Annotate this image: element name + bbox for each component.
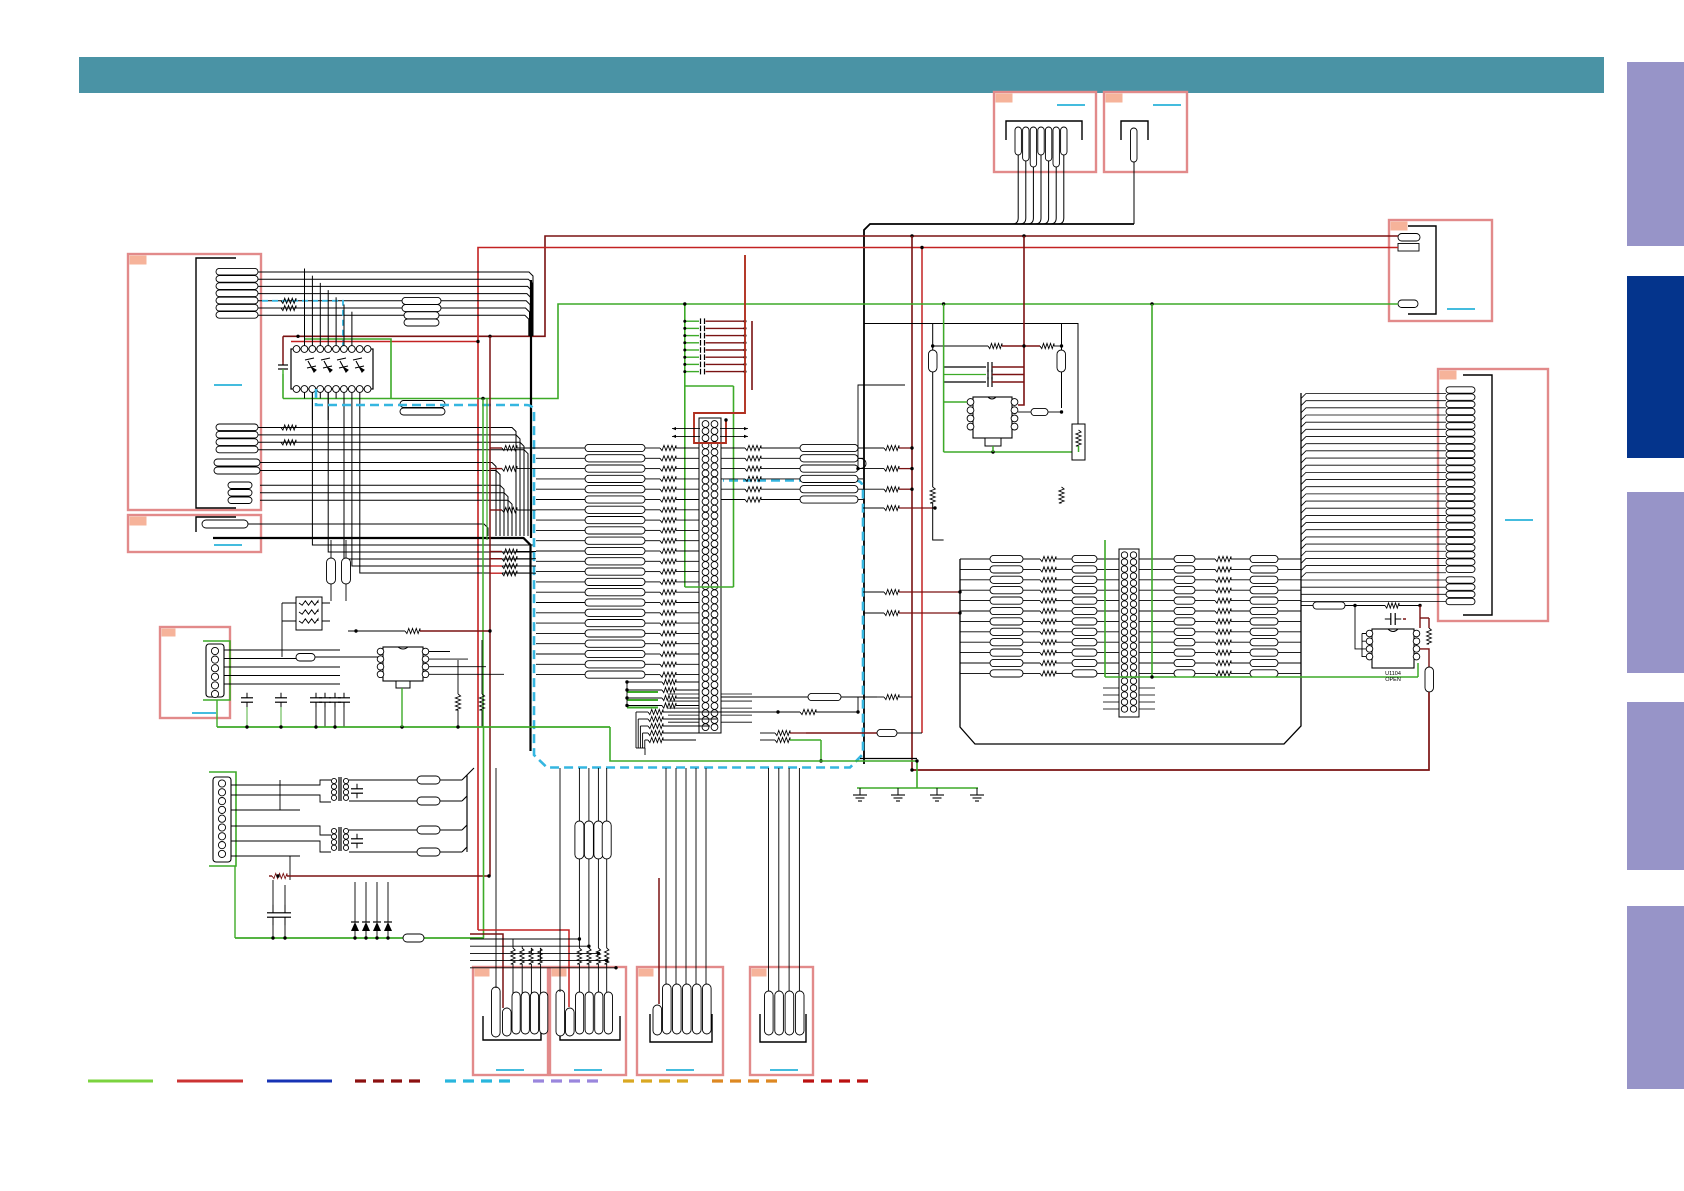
LSI inner connector pins [702,421,718,731]
vertical beads mic 2 [342,558,351,584]
osc wire left low [933,503,944,540]
osc right wire [1061,324,1063,409]
legend blue wire [267,1080,332,1083]
connector CN1001 pins group4 [228,482,252,504]
connector CN1101 pins [1015,127,1067,167]
wires PC1001 top fan [305,269,352,346]
green verticals around connector [683,302,733,587]
audio rows join bus [462,768,474,852]
connector box CN1102 frame [1104,92,1187,172]
legend dark-red dashed wire [355,1079,422,1082]
no-connect tick rows [672,427,748,438]
legend mustard dashed wire [623,1079,690,1082]
photocoupler PC1001 top pins [293,346,371,353]
transformer T2002 [331,827,348,851]
red bus top [478,248,1398,931]
connector box CN1003 frame (mic) [160,627,230,718]
vertical feed green rows [626,682,628,706]
green stub U1104 [1417,663,1419,677]
green stub mic ic [401,688,403,727]
wire CN1102 down [1133,162,1135,224]
ground symbol 3 [936,788,938,795]
green vertical left inner 2 [486,399,488,541]
connector CN2003 bracket [650,1014,712,1042]
bead on green bus [403,934,424,942]
osc left wire [932,324,934,488]
dark red audio row [269,873,491,878]
green horizontal to U1104 [1105,675,1418,678]
junction dark red 2 [1022,234,1025,237]
sidebar tab 4 [1627,702,1684,870]
exit row green 740 [760,737,823,762]
cyan dashed trace [262,301,343,346]
connector CN1103 pin 3 [1398,300,1418,308]
dark red bottom bus [912,692,1429,770]
connector CN2004 bracket [760,1014,806,1042]
osc top wire [864,324,1078,425]
resistor R1004 [281,440,296,445]
red wire to bus [291,340,480,343]
U-turn fold rows at right edge [858,458,866,468]
green outline CN1005 [209,772,236,866]
block rows [960,555,1301,677]
dot darkred bus [910,768,913,771]
left red stub rows 2 [490,563,536,575]
green box top edge [685,385,734,387]
wires CN1001 group2 [258,428,528,537]
osc zigzag right [1059,487,1064,503]
photocoupler PC1001 led arrows [305,358,364,372]
wire CN1002 [248,524,488,536]
connector CN1103 bracket [1408,226,1436,314]
ferrite bead mic [296,654,383,662]
legend dark red dashed wire 2 [803,1079,870,1082]
U1104 top capacitor [1385,618,1391,620]
U1104 stadium right [1425,667,1434,692]
connector CN1003 shell [206,644,224,697]
U1104 body [1372,629,1414,668]
audio caps bottom [267,880,291,938]
legend green wire [88,1080,153,1083]
block connector CN outline [1119,549,1139,717]
main LSI dashed route [316,389,863,768]
connector box CN1104 frame [1438,369,1548,621]
ferrite bead osc [1018,408,1063,415]
wires CN1003 out [224,650,340,684]
connector CN1001 pins group1 [216,268,258,318]
connector box CN1101 frame [994,92,1096,172]
dark red wire ladder second [751,321,753,390]
U1104 pins left [1366,630,1373,660]
fan to CN1104 [1301,394,1446,602]
mic caps row [241,693,350,727]
green bottom bus audio [235,936,484,939]
ferrite bead pair FB1003 [400,401,445,416]
mic IC bottom tab [396,681,410,688]
wires CN1101 to bus [1012,155,1064,224]
connector box CN2003 frame [637,967,723,1075]
LSI connector bottom ticks [668,694,752,722]
legend red wire [177,1080,243,1083]
ground symbol 2 [897,788,899,795]
wire osc left net [943,304,945,452]
left red stub rows [490,445,536,561]
wires CN1005 out [231,785,300,856]
sidebar tab 3 [1627,492,1684,673]
dark red bus top [283,236,1398,336]
ferrite bead pair FB1001 [402,297,441,311]
sidebar tab 1 [1627,62,1684,246]
connector CN1005 pins [218,780,225,858]
legend orange dashed wire [712,1079,779,1082]
osc left resistor RB1 [929,350,938,372]
osc IC notch [988,397,996,399]
connector box CN2004 frame [750,967,813,1075]
ground symbol 4 [976,788,978,795]
connector CN2004 pins [765,991,805,1035]
red vertical left inner [489,336,491,876]
audio vertical join [466,775,468,852]
wires T1001 [282,603,330,657]
connector box CN1103 frame [1389,220,1492,321]
wires mic IC right [429,652,504,675]
audio row wires upper [280,780,331,810]
legend purple dashed wire [533,1079,600,1082]
green wire PC1001 frame [305,339,391,399]
bundle H3 [666,768,706,984]
red vertical mid [921,248,923,734]
mic IC pins right [422,648,429,677]
exit row 712 [724,697,860,715]
connector CN1002 pin [196,517,248,532]
resistor R1001 [281,298,296,303]
connector CN1102 pin [1131,128,1138,162]
dark red wire to PC1001 [282,336,284,362]
mic resistor darkred row [348,628,492,633]
wires CN1001 group3/4 [260,463,512,537]
osc IC bottom tab [985,438,1001,446]
green wire to osc IC [944,401,967,403]
legend cyan dashed wire [445,1079,512,1082]
transformer T2001 [331,777,348,801]
green vertical left inner 1 [482,399,484,728]
green vertical block 2 [1151,304,1153,677]
wires CN1001 group1 to left bus [258,272,533,336]
svg-text:OPEN: OPEN [1385,677,1401,683]
staircase wires [470,937,618,994]
junction red [920,246,923,249]
U1104 right resistor [1420,618,1431,644]
photocoupler PC1001 body [291,349,373,389]
mic IC notch [398,647,408,649]
transformer T1001 block [296,597,322,630]
osc caps C1-C3 [944,362,1024,387]
capacitor C1001 [278,362,288,374]
black bus from CN1101 [864,224,1134,764]
U1104 right darkred [1403,606,1420,629]
exit row with bead [721,693,912,700]
osc row resistor wire [931,343,1063,348]
thick black bus horizontal [213,538,531,751]
block connector pins [1121,552,1136,712]
resistors above H1 [511,948,542,964]
green bus top [283,304,1398,399]
green stub connector audio [234,866,236,938]
connector CN1103 pin 1 [1398,234,1420,242]
exit row darkred 733 [760,729,922,736]
nested resistor cluster [636,709,724,755]
dot osc darkred [1022,344,1025,347]
header title bar [79,57,1604,93]
connector CN2002 bracket [560,1016,620,1040]
connector box CN2001 frame [473,967,548,1075]
dark red vertical mid [911,236,913,770]
green stub connector [216,700,218,727]
row to U1104 [1301,602,1422,609]
LSI inner connector outline [699,418,721,733]
osc right resistor RB2 [1057,350,1066,372]
connector CN1001 bracket [196,258,236,508]
vertical beads mic 1 [327,558,336,584]
dark red drop H1 [470,934,503,1008]
mic IC pins left [377,648,384,677]
wires PC1001 bottom drops [305,393,345,421]
signal block outline [960,393,1301,744]
resistors above H2 [577,948,609,964]
block connector side ticks [1103,688,1155,709]
connector CN2003 pins [653,984,711,1035]
U1104 pins right [1413,630,1420,660]
LSI right rows upper [721,444,914,503]
green junction 1 [942,302,945,305]
connector CN1104 pins [1446,387,1475,605]
left vertical bus thick [530,280,532,538]
diodes D1-D4 [351,882,392,938]
sidebar tab 2 (active) [1627,276,1684,458]
osc IC pins right [1011,399,1018,430]
mic IC body [383,647,423,681]
green junction 2 [1150,302,1153,305]
connector CN1001 pins group2 [216,424,258,453]
resistor R1002 [281,305,296,310]
caps audio [351,784,363,848]
U1104 notch [1388,629,1398,632]
green-black rows left of connector [625,679,699,708]
green wire PC1001 left [282,374,284,399]
ground symbol 1 [859,788,861,795]
connector CN1003 pins [211,647,218,697]
U1104 left wiring [1355,606,1366,657]
connector CN1101 bracket [1006,121,1082,140]
connector CN1001 pins group3 [214,459,260,474]
connector CN2002 pins [556,990,613,1036]
sidebar tab 5 [1627,906,1684,1089]
connector box CN1002 frame (left small) [128,515,261,552]
resistor box RA1 [1072,424,1085,460]
green bus mic [217,725,610,728]
ferrite bead pair FB1002 [404,312,439,326]
green vertical right audio [483,727,485,938]
wire drop H2a [559,768,561,992]
green stub IC bottom [992,446,994,452]
right exits of LSI [863,505,962,615]
bundle beads H2 [575,768,611,992]
red drop H2 [478,930,569,1007]
junction dark red 1 [910,234,913,237]
wire drop H1a [495,768,497,988]
connector box CN1001 frame (left tall) [128,254,261,510]
connector CN1102 bracket [1121,121,1148,140]
resistor R1003 [281,425,296,430]
dark red wire ladder [724,418,727,421]
dark red wire into osc [1018,236,1024,405]
green junction 3 [481,397,484,400]
photocoupler PC1001 bottom pins [293,386,371,393]
wires beads up [331,540,346,601]
bundle H4 [769,768,800,991]
green vertical block 1 [1104,540,1106,677]
dark red loop at connector top [694,255,745,443]
green bus osc bottom [944,450,1078,453]
LSI left rows [536,444,699,678]
audio rows to beads [349,776,462,856]
capacitor ladder rows [683,318,746,374]
mic zigzag verticals [455,640,484,727]
connector box CN2002 frame [550,967,626,1075]
connector CN1005 shell [213,777,231,862]
connector CN1103 pin 2 [1398,244,1419,252]
connector CN2001 bracket [483,1016,541,1040]
green outline CN1003 [203,641,230,700]
osc IC pins left [967,399,974,430]
osc IC X1001 body [973,397,1012,438]
connector CN2001 pins [492,987,548,1037]
connector CN1104 bracket [1463,375,1492,615]
audio row wires lower [290,826,331,880]
osc resistor zigzag left [930,487,935,503]
wires PC1001 bottom to staircase [312,393,534,574]
green ground bus [610,727,978,788]
dark red drop H3 [658,878,660,1004]
U1104 right wire [1420,649,1429,667]
